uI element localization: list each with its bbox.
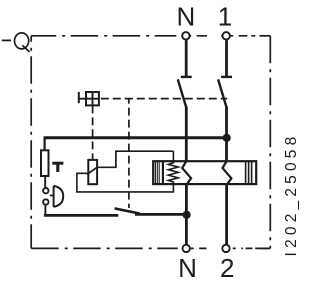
- wire: pole 2 bottom section: [225, 185, 228, 248]
- wire: pole 1 mid section: [225, 107, 228, 161]
- core hatching right: [246, 162, 252, 184]
- switch blade pole 1: [218, 79, 227, 107]
- svg-text:1: 1: [218, 1, 232, 31]
- svg-text:I202_25058: I202_25058: [283, 133, 300, 257]
- wire: pole N terminal lead (top): [185, 36, 188, 77]
- summation current transformer core W1: [153, 161, 256, 184]
- label -Q leader dash: [2, 39, 11, 41]
- border gap patches (dash phase corrections): [176, 34, 259, 250]
- CT secondary winding zigzag and bottom return wire to relay: [77, 151, 178, 192]
- wire: rail corner down to resistor top: [43, 137, 45, 151]
- wire: top rail from test resistor to node on pole 1: [44, 136, 227, 139]
- terminal N top: [182, 32, 189, 39]
- pole 2 conductor kink through CT: [223, 161, 232, 185]
- terminal 2 bottom: [222, 245, 229, 252]
- mechanical linkage (dashed) down to trip contact: [128, 99, 130, 208]
- trip relay coil K (release): [88, 160, 97, 184]
- terminal 1 top: [223, 32, 230, 39]
- mechanical linkage (dashed) actuator to poles: [101, 98, 227, 100]
- svg-text:N: N: [178, 253, 197, 283]
- svg-text:N: N: [177, 1, 196, 31]
- resistor R test: [41, 150, 49, 176]
- trip contact blade: [115, 208, 140, 213]
- junction node bottom rail / pole N: [183, 211, 191, 219]
- test push button contact circles: [43, 188, 48, 193]
- wire: bottom rail left segment: [44, 214, 118, 217]
- wire: bottom rail right segment to node on pole N: [135, 213, 188, 216]
- switch blade pole N: [178, 79, 187, 107]
- relay slanted conductor: [87, 167, 97, 174]
- wire: relay to CT secondary winding (top): [97, 151, 173, 167]
- wire: pole N bottom section: [185, 185, 188, 248]
- wire: pole N mid section: [185, 107, 188, 161]
- fixed contact bar pole N: [181, 76, 192, 78]
- label T: [52, 162, 63, 165]
- test button actuator (push knob): [53, 186, 55, 207]
- pole N conductor kink through CT: [182, 161, 191, 185]
- fixed contact bar pole 1: [221, 76, 232, 78]
- label -Q (letter Q drawn as bowl + tail): [15, 33, 29, 49]
- mechanical linkage (dashed) actuator to trip relay: [92, 105, 94, 159]
- svg-text:2: 2: [220, 253, 234, 283]
- wire: pole 1 terminal lead (top): [225, 36, 228, 77]
- device outline -Q (dash-dot enclosure boundary): [31, 36, 270, 249]
- junction node rail / pole 1: [223, 134, 231, 142]
- terminal N bottom: [183, 245, 190, 252]
- manual actuator (test knob) symbol: [86, 92, 99, 105]
- wire: resistor to test button contact: [44, 176, 46, 188]
- wire: test button contact to bottom rail: [44, 205, 45, 215]
- core hatching left: [155, 161, 163, 184]
